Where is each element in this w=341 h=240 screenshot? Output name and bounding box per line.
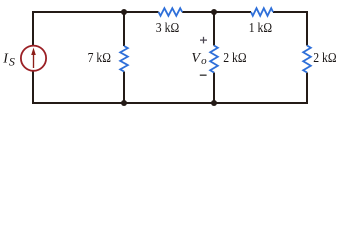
node junction dot top middle [211,9,217,15]
label Vo minus sign [200,74,207,76]
label Vo plus sign [200,37,207,44]
current source arrow [31,48,36,68]
resistor 2k middle zigzag (vertical) [210,46,218,73]
svg-text:2 kΩ: 2 kΩ [313,51,336,66]
resistor 3k zigzag (top horizontal) [159,8,183,16]
svg-text:7 kΩ: 7 kΩ [88,51,111,66]
wire 7k branch top [123,12,125,46]
svg-text:3 kΩ: 3 kΩ [156,21,179,36]
wire middle branch top [213,12,215,46]
svg-text:o: o [201,55,207,67]
svg-text:2 kΩ: 2 kΩ [223,51,246,66]
resistor 7k zigzag (vertical) [120,46,128,72]
node junction dot bottom 7k [121,100,127,106]
current source IS circle [21,46,46,71]
resistor 2k right zigzag (vertical) [303,46,311,73]
svg-text:1 kΩ: 1 kΩ [249,21,272,36]
wire middle branch bottom [213,73,215,104]
wire top middle segment [182,11,251,13]
wire 7k branch bottom [123,72,125,104]
svg-text:S: S [9,55,15,69]
svg-text:V: V [191,51,201,66]
wire bottom run with left and right risers [33,71,307,103]
resistor 1k zigzag (top horizontal) [251,8,273,16]
wire top-left corner run [33,12,159,46]
node junction dot top 7k [121,9,127,15]
node junction dot bottom middle [211,100,217,106]
wire top-right corner run [273,12,307,46]
